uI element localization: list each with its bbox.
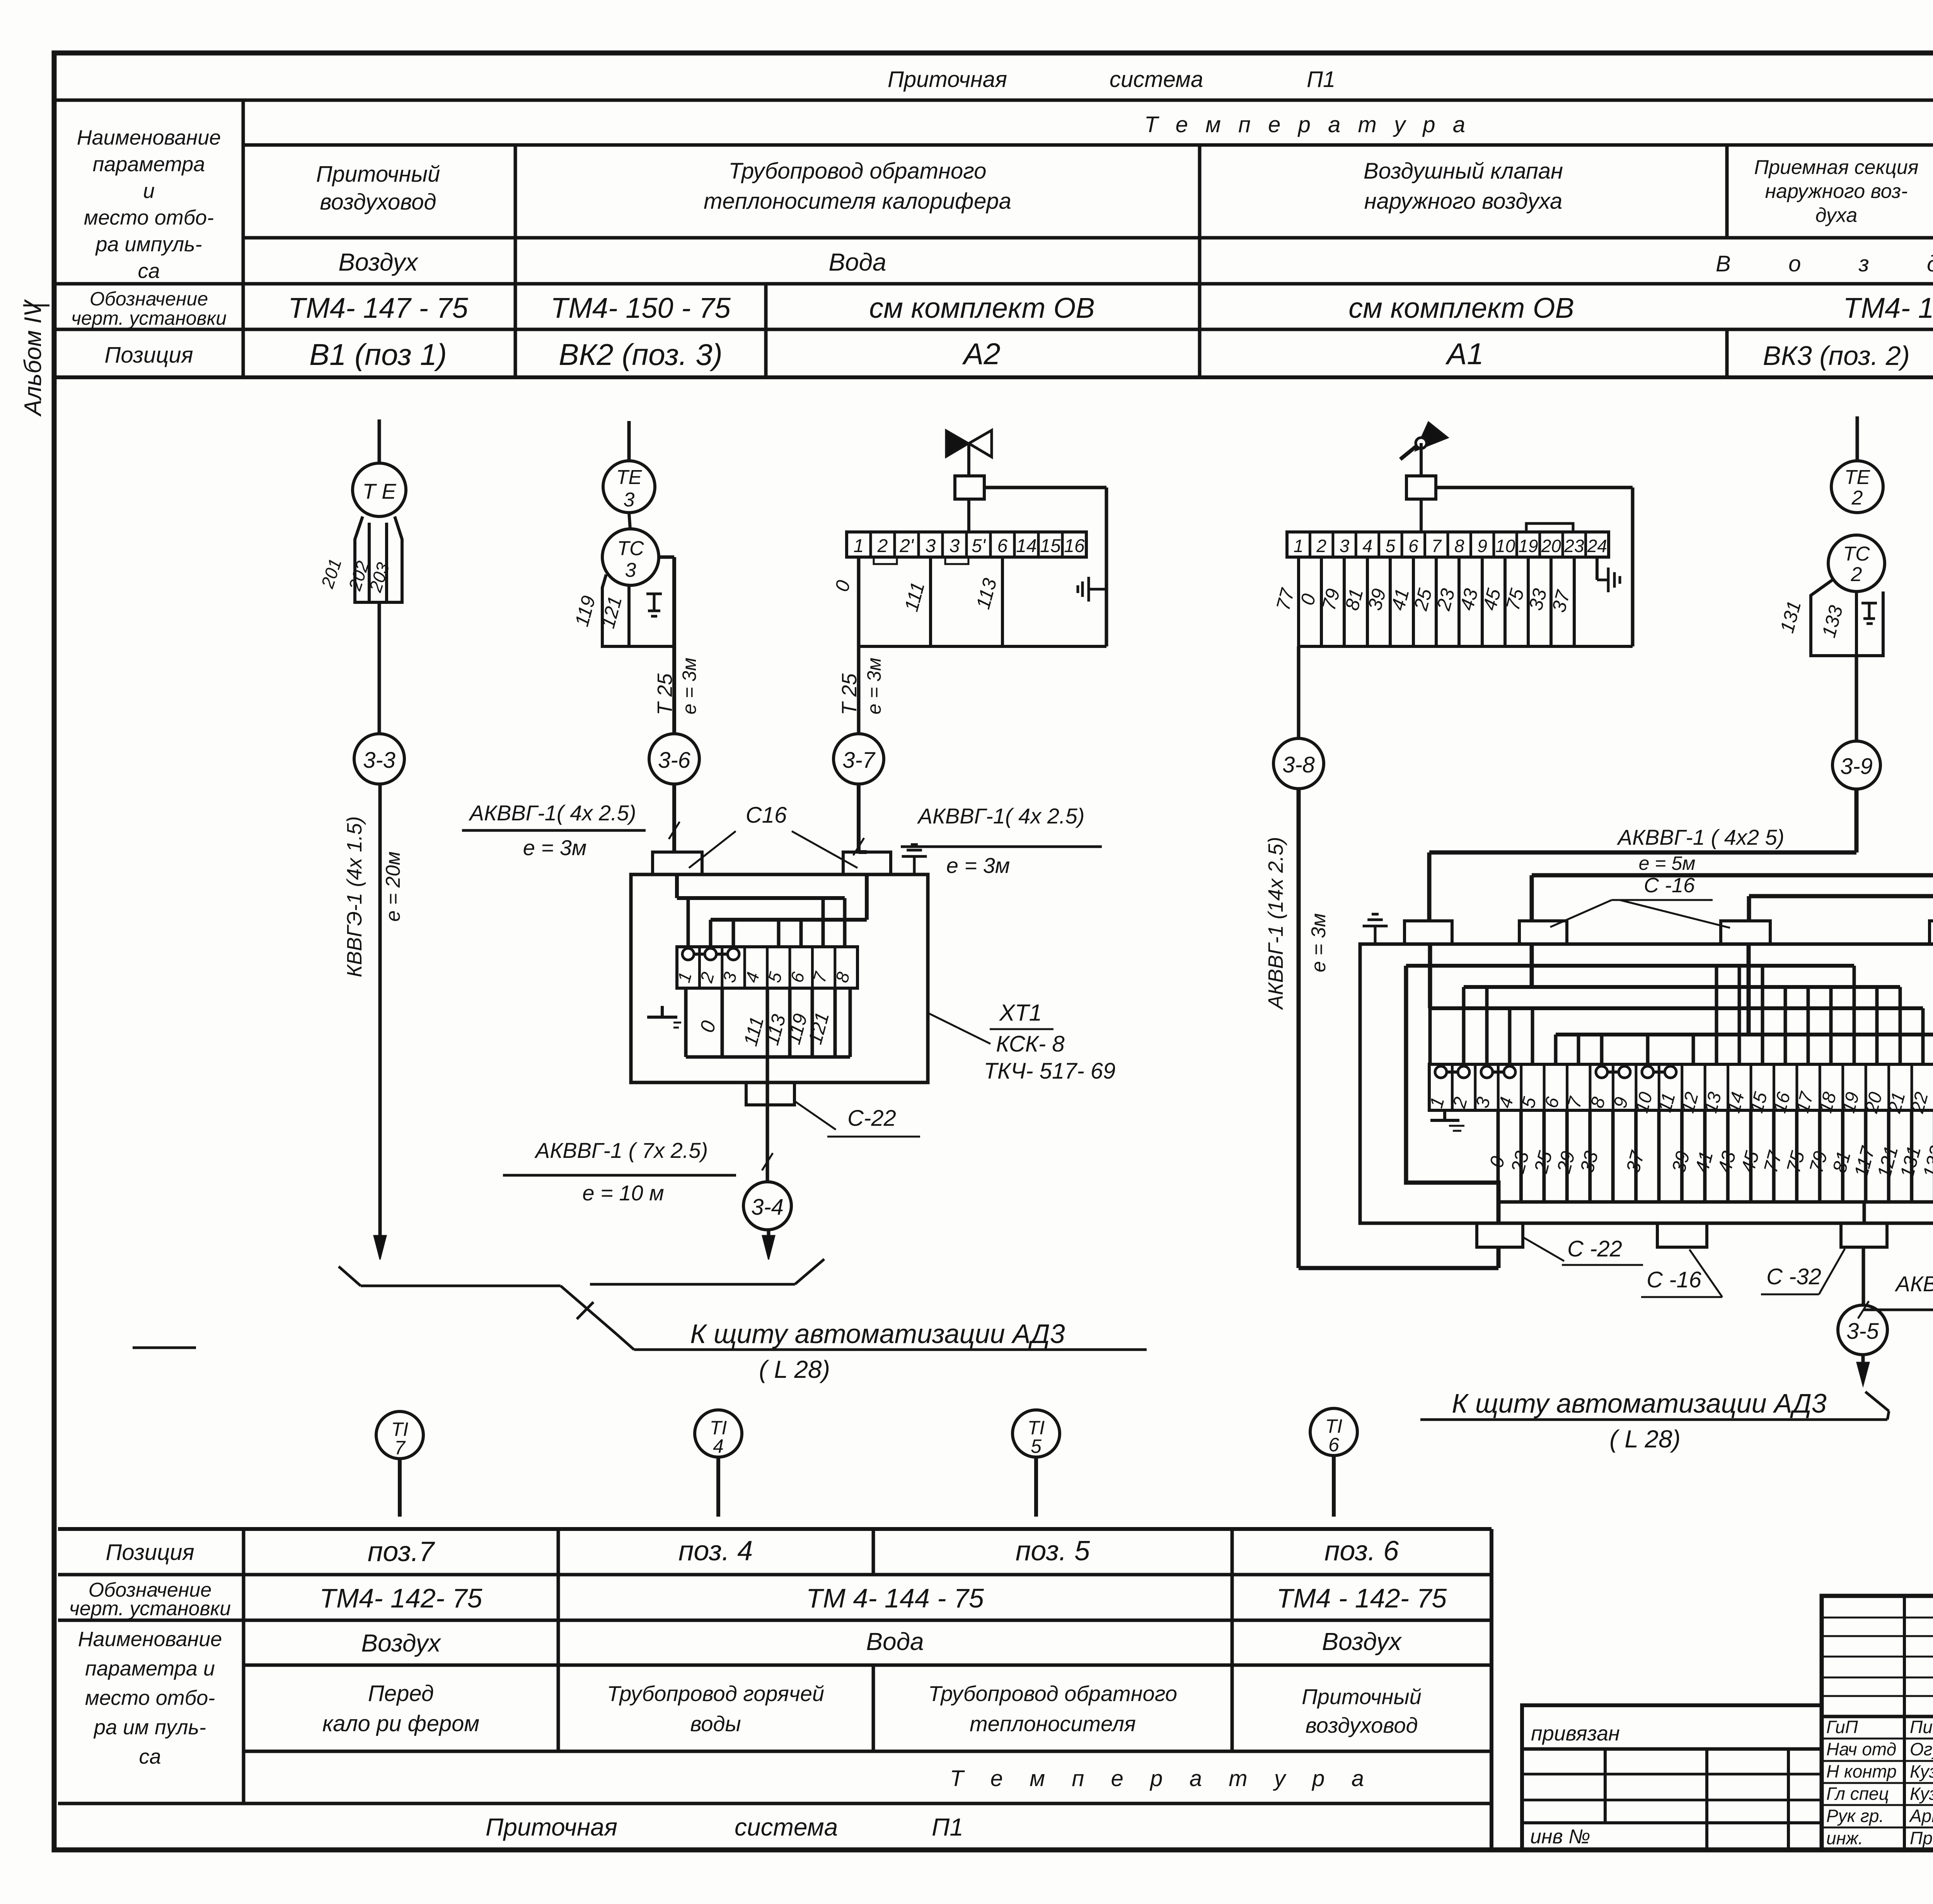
thermometer TI7 bbox=[376, 1411, 423, 1517]
svg-text:АКВВГ-1( 4x 2.5): АКВВГ-1( 4x 2.5) bbox=[917, 804, 1085, 828]
svg-text:19: 19 bbox=[1518, 536, 1538, 556]
svg-text:119: 119 bbox=[571, 593, 600, 629]
svg-text:АКВВГ-1 ( 4x2 5): АКВВГ-1 ( 4x2 5) bbox=[1617, 825, 1785, 849]
svg-text:3: 3 bbox=[625, 559, 636, 581]
svg-text:3: 3 bbox=[949, 536, 960, 556]
node 3-5 bbox=[1838, 1305, 1887, 1355]
svg-text:ТМ4- 142- 75: ТМ4- 142- 75 bbox=[320, 1583, 483, 1613]
svg-text:15: 15 bbox=[1040, 536, 1061, 556]
svg-text:черт. установки: черт. установки bbox=[69, 1597, 231, 1620]
wire actuator to strip A2 bbox=[967, 499, 970, 532]
ground at XT1 top right bbox=[902, 845, 927, 874]
svg-text:Позиция: Позиция bbox=[104, 343, 193, 368]
svg-text:Т е м п е р а т у р а: Т е м п е р а т у р а bbox=[950, 1766, 1364, 1791]
wire A2 to 3-7 (Т 25, e=3м) bbox=[838, 658, 885, 715]
jumper on XT1 terminals 1-2-3 bbox=[682, 948, 739, 960]
ground at XT2 top left bbox=[1363, 914, 1388, 944]
svg-text:КВВГЭ-1 (4x 1.5): КВВГЭ-1 (4x 1.5) bbox=[343, 816, 366, 977]
svg-text:поз. 6: поз. 6 bbox=[1324, 1536, 1399, 1566]
arrow from 3-5 to trunk bbox=[1857, 1355, 1869, 1386]
C-32 label under XT2 bbox=[1761, 1249, 1845, 1294]
svg-text:параметра: параметра bbox=[93, 153, 205, 176]
XT1 outlet wire to C-22 bbox=[766, 1057, 769, 1182]
label XT1 КСК-8 ТКЧ-517-69 with leader bbox=[928, 1000, 1115, 1084]
svg-text:А1: А1 bbox=[1445, 337, 1483, 371]
svg-text:С16: С16 bbox=[746, 803, 787, 828]
signature rows bbox=[1822, 1717, 1933, 1848]
wire 3-9 run bbox=[1856, 416, 1859, 461]
svg-text:кало ри фером: кало ри фером bbox=[322, 1711, 479, 1736]
svg-text:Т Е: Т Е bbox=[362, 479, 396, 503]
svg-text:5': 5' bbox=[972, 536, 986, 556]
svg-text:П1: П1 bbox=[932, 1813, 963, 1841]
svg-text:0: 0 bbox=[696, 1018, 721, 1035]
svg-text:АКВВГ-1 ( 7x 2.5): АКВВГ-1 ( 7x 2.5) bbox=[534, 1138, 708, 1163]
trunk gather bracket to АД3 (left) bbox=[133, 1259, 1147, 1350]
sensor TE2 (first) bbox=[1831, 461, 1883, 513]
node 3-9 bbox=[1832, 741, 1880, 789]
svg-text:место отбо-: место отбо- bbox=[84, 206, 214, 229]
svg-text:е = 3м: е = 3м bbox=[678, 658, 700, 714]
svg-text:см комплект ОВ: см комплект ОВ bbox=[1348, 292, 1574, 324]
svg-text:5: 5 bbox=[1386, 536, 1396, 556]
svg-text:37: 37 bbox=[1622, 1148, 1648, 1175]
svg-text:Арнаутова: Арнаутова bbox=[1909, 1806, 1933, 1826]
svg-text:Наименование: Наименование bbox=[77, 126, 221, 149]
svg-text:3-8: 3-8 bbox=[1282, 752, 1315, 777]
svg-text:0: 0 bbox=[831, 578, 854, 594]
wire 3-11 to XT2 nub3 bbox=[1749, 880, 1933, 921]
terminal box XT2 outline bbox=[1360, 944, 1933, 1223]
wire 3-6 to XT1 bbox=[672, 784, 676, 852]
svg-text:33: 33 bbox=[1576, 1149, 1602, 1175]
svg-text:система: система bbox=[735, 1813, 838, 1841]
jumpers on XT2 terminals 1-2 3-4 8-9 10-11 bbox=[1435, 1066, 1676, 1078]
svg-text:Трубопровод обратного: Трубопровод обратного bbox=[928, 1681, 1177, 1706]
wire actuator to strip A1 bbox=[1420, 499, 1423, 532]
svg-text:43: 43 bbox=[1713, 1149, 1740, 1175]
wire A1 cell1 down to 3-8 bbox=[1297, 646, 1301, 738]
wire C-32 to 3-5 with cable label АКВВГ-1(19x2.5) e=15м bbox=[1858, 1202, 1933, 1339]
svg-text:ТМ4 - 142- 75: ТМ4 - 142- 75 bbox=[1277, 1583, 1447, 1613]
top table texts bbox=[71, 67, 1933, 372]
thermometer TI5 bbox=[1013, 1410, 1060, 1517]
sensor TE (B1) bbox=[353, 463, 406, 516]
svg-text:ТМ4- 147 - 75: ТМ4- 147 - 75 bbox=[288, 292, 468, 324]
damper A1 actuator box bbox=[1406, 476, 1436, 499]
terminal strip XT1 (8 cells) bbox=[673, 947, 857, 988]
svg-text:Воздушный клапан: Воздушный клапан bbox=[1364, 159, 1563, 184]
svg-text:Приемная секция: Приемная секция bbox=[1754, 156, 1918, 179]
svg-text:са: са bbox=[139, 1745, 161, 1768]
svg-text:С-22: С-22 bbox=[847, 1106, 896, 1131]
cable АКВВГ-1(4x2.5) e=3м label at 3-6 bbox=[462, 801, 680, 860]
svg-text:2: 2 bbox=[877, 536, 888, 556]
svg-text:воздуховод: воздуховод bbox=[320, 189, 436, 215]
svg-text:е = 3м: е = 3м bbox=[863, 658, 885, 714]
terminal strip XT2 (cells 1-23 + 32) bbox=[1426, 1062, 1933, 1116]
привязан box bbox=[1522, 1705, 1822, 1850]
terminal strip A1 bbox=[1287, 523, 1609, 557]
svg-text:24: 24 bbox=[1587, 536, 1607, 556]
C-22 label under XT2 bbox=[1523, 1236, 1643, 1265]
svg-text:Обозначение: Обозначение bbox=[90, 288, 208, 310]
svg-text:77: 77 bbox=[1272, 585, 1299, 612]
svg-text:3: 3 bbox=[624, 489, 635, 511]
svg-text:20: 20 bbox=[1541, 536, 1561, 556]
svg-text:АКВВГ-1 (14x 2.5): АКВВГ-1 (14x 2.5) bbox=[1264, 837, 1287, 1010]
ground at A2 terminal 16 bbox=[1078, 577, 1106, 602]
cable АКВВГ-1(4x2.5) e=5м label at 3-9 bbox=[1617, 825, 1785, 874]
svg-text:133: 133 bbox=[1818, 603, 1847, 640]
svg-text:Трубопровод горячей: Трубопровод горячей bbox=[607, 1681, 824, 1706]
connector C16 nub left on XT1 bbox=[653, 852, 702, 874]
svg-text:Кузнецов: Кузнецов bbox=[1910, 1784, 1933, 1804]
svg-text:К щиту автоматизации АД3: К щиту автоматизации АД3 bbox=[690, 1319, 1065, 1349]
svg-text:Приточный: Приточный bbox=[316, 162, 440, 187]
svg-text:8: 8 bbox=[1454, 536, 1464, 556]
svg-text:Воздух: Воздух bbox=[1322, 1628, 1402, 1655]
svg-text:45: 45 bbox=[1737, 1149, 1763, 1175]
svg-text:ТМ4- 147 -75: ТМ4- 147 -75 bbox=[1843, 292, 1933, 324]
svg-text:Воздух: Воздух bbox=[338, 248, 418, 276]
node 3-8 bbox=[1273, 738, 1324, 789]
wire 3-10 to XT2 nub2 bbox=[1532, 789, 1933, 921]
svg-text:наружного воздуха: наружного воздуха bbox=[1364, 189, 1562, 214]
A2 strip drop wires and bus bbox=[831, 557, 1106, 734]
svg-text:С -32: С -32 bbox=[1766, 1264, 1821, 1289]
title block revision rows bbox=[1822, 1596, 1933, 1850]
cable АКВВГ-1(4x2.5) e=3м label at 3-7 bbox=[853, 804, 1102, 878]
svg-text:КСК- 8: КСК- 8 bbox=[996, 1031, 1064, 1057]
svg-text:В о з д у х: В о з д у х bbox=[1716, 251, 1933, 276]
svg-text:131: 131 bbox=[1776, 598, 1805, 635]
svg-text:( L 28): ( L 28) bbox=[1609, 1425, 1681, 1453]
svg-text:Проимкина: Проимкина bbox=[1910, 1828, 1933, 1848]
bottom table grid bbox=[58, 1529, 1492, 1850]
wire TC3 to 3-6 (Т 25, e=3м) bbox=[653, 557, 700, 734]
C16 label with leaders (XT1) bbox=[689, 803, 857, 868]
svg-text:121: 121 bbox=[804, 1010, 834, 1047]
wire 3-9 to XT2 nub1 bbox=[1429, 789, 1856, 921]
svg-text:Вода: Вода bbox=[828, 248, 886, 276]
node 3-4 bbox=[743, 1182, 791, 1230]
svg-text:С -16: С -16 bbox=[1647, 1267, 1702, 1292]
svg-text:С -16: С -16 bbox=[1644, 874, 1695, 897]
svg-text:са: са bbox=[138, 259, 160, 283]
connector C-22 nub under XT1 bbox=[746, 1082, 794, 1105]
svg-text:Т 25: Т 25 bbox=[653, 673, 677, 715]
svg-text:ГиП: ГиП bbox=[1826, 1717, 1858, 1737]
thermometer TI6 bbox=[1310, 1408, 1357, 1517]
svg-text:6: 6 bbox=[1408, 536, 1418, 556]
svg-text:А2: А2 bbox=[962, 337, 1000, 371]
wire actuator to terminal 16 bbox=[984, 488, 1106, 646]
svg-text:Наименование: Наименование bbox=[78, 1628, 222, 1651]
terminal box under TC2 (131/133) bbox=[1776, 580, 1883, 656]
svg-text:2: 2 bbox=[1851, 563, 1862, 586]
cable АКВВГ-1(14x2.5) e=3м rotated label bbox=[1264, 837, 1330, 1010]
trunk bracket to АД3 (right) bbox=[1420, 1392, 1889, 1420]
svg-text:ВК3 (поз. 2): ВК3 (поз. 2) bbox=[1763, 341, 1910, 371]
svg-text:привязан: привязан bbox=[1531, 1722, 1620, 1745]
svg-text:2': 2' bbox=[899, 536, 914, 556]
sensor TC2 (first) bbox=[1828, 535, 1885, 591]
svg-text:АКВВГ- 1( 19x 2. 5): АКВВГ- 1( 19x 2. 5) bbox=[1895, 1272, 1933, 1296]
svg-text:Приточная: Приточная bbox=[486, 1813, 617, 1841]
svg-text:Приточный: Приточный bbox=[1302, 1684, 1422, 1709]
svg-text:ТКЧ- 517- 69: ТКЧ- 517- 69 bbox=[984, 1059, 1116, 1084]
svg-text:инв №: инв № bbox=[1530, 1826, 1590, 1848]
ground inside XT1 bbox=[647, 1006, 681, 1028]
svg-text:3-5: 3-5 bbox=[1846, 1319, 1879, 1344]
svg-text:5: 5 bbox=[1031, 1435, 1042, 1457]
svg-text:Пивторак: Пивторак bbox=[1910, 1717, 1933, 1737]
valve A2 (клапан) symbol bbox=[946, 430, 992, 476]
svg-text:9: 9 bbox=[1477, 536, 1487, 556]
svg-text:наружного воз-: наружного воз- bbox=[1765, 180, 1908, 203]
svg-text:25: 25 bbox=[1530, 1149, 1556, 1175]
svg-text:ТЕ: ТЕ bbox=[616, 466, 643, 489]
ground at A1 strip bbox=[1597, 557, 1620, 592]
svg-text:111: 111 bbox=[900, 580, 929, 614]
svg-text:е = 20м: е = 20м bbox=[382, 851, 404, 922]
svg-text:1: 1 bbox=[1294, 536, 1304, 556]
node 3-6 bbox=[649, 734, 699, 784]
connector C16 nub right on XT1 bbox=[843, 852, 891, 874]
svg-text:воды: воды bbox=[690, 1711, 741, 1736]
svg-text:77: 77 bbox=[1759, 1148, 1786, 1175]
svg-text:23: 23 bbox=[1507, 1149, 1533, 1175]
svg-text:место отбо-: место отбо- bbox=[85, 1686, 215, 1710]
svg-text:Т 25: Т 25 bbox=[838, 673, 861, 715]
valve A2 actuator box bbox=[955, 476, 984, 499]
svg-text:и: и bbox=[143, 179, 155, 203]
svg-text:С -22: С -22 bbox=[1567, 1236, 1622, 1261]
svg-text:е = 5м: е = 5м bbox=[1639, 852, 1696, 874]
C-16 label above XT2 nubs 2-3 bbox=[1550, 874, 1730, 928]
terminal strip A2 bbox=[847, 532, 1086, 557]
svg-text:черт. установки: черт. установки bbox=[71, 307, 227, 329]
svg-text:4: 4 bbox=[1362, 536, 1372, 556]
label К щиту автоматизации АД3 (left) bbox=[690, 1319, 1065, 1383]
svg-text:см комплект ОВ: см комплект ОВ bbox=[869, 292, 1095, 324]
svg-text:3-9: 3-9 bbox=[1840, 754, 1873, 779]
svg-text:4: 4 bbox=[713, 1435, 724, 1457]
svg-text:1: 1 bbox=[854, 536, 864, 556]
top table grid bbox=[54, 100, 1933, 377]
svg-text:поз. 4: поз. 4 bbox=[678, 1536, 753, 1566]
svg-text:параметра и: параметра и bbox=[85, 1657, 215, 1680]
XT2 internal bus wiring bbox=[1406, 944, 1933, 1223]
svg-text:система: система bbox=[1110, 67, 1203, 92]
svg-text:3-7: 3-7 bbox=[842, 748, 876, 773]
svg-text:Рук гр.: Рук гр. bbox=[1826, 1806, 1884, 1826]
svg-text:3-4: 3-4 bbox=[751, 1195, 784, 1220]
svg-text:16: 16 bbox=[1064, 536, 1085, 556]
sensor head B1 (strips 201/202/203) bbox=[317, 516, 402, 602]
C-22 label with leader (XT1) bbox=[793, 1100, 920, 1137]
svg-text:е = 10 м: е = 10 м bbox=[582, 1181, 664, 1205]
svg-text:ХТ1: ХТ1 bbox=[999, 1000, 1042, 1026]
svg-text:41: 41 bbox=[1691, 1149, 1717, 1175]
terminal box under TC3 (119/121) bbox=[571, 574, 674, 646]
svg-text:Перед: Перед bbox=[368, 1681, 434, 1706]
svg-text:7: 7 bbox=[1431, 536, 1442, 556]
wire TC2 to 3-9 bbox=[1855, 591, 1858, 740]
svg-text:( L 28): ( L 28) bbox=[759, 1355, 830, 1383]
svg-text:75: 75 bbox=[1782, 1149, 1809, 1175]
svg-text:ра им пуль-: ра им пуль- bbox=[93, 1716, 206, 1739]
wire 3-7 to XT1 bbox=[859, 784, 867, 852]
svg-text:2: 2 bbox=[1851, 487, 1863, 509]
XT2 lower wire channels with numbers bbox=[1485, 1110, 1933, 1202]
svg-text:201: 201 bbox=[317, 556, 345, 591]
svg-text:6: 6 bbox=[1328, 1434, 1339, 1456]
svg-text:Гл спец: Гл спец bbox=[1826, 1784, 1889, 1804]
XT1 internal wiring bbox=[677, 874, 867, 947]
sensor TE3 bbox=[603, 461, 655, 529]
svg-text:10: 10 bbox=[1495, 536, 1515, 556]
svg-text:теплоносителя калорифера: теплоносителя калорифера bbox=[704, 189, 1011, 214]
svg-text:Т е м п е р а т у р а: Т е м п е р а т у р а bbox=[1144, 112, 1465, 137]
svg-text:духа: духа bbox=[1815, 204, 1858, 227]
svg-text:Альбом IV: Альбом IV bbox=[20, 299, 46, 417]
svg-text:теплоносителя: теплоносителя bbox=[970, 1711, 1136, 1736]
svg-text:е = 3м: е = 3м bbox=[1307, 913, 1330, 972]
wire from B1 to 3-3 bbox=[378, 602, 381, 734]
wire A1 actuator to terminal 24 bbox=[1436, 488, 1633, 646]
arrow from 3-4 to trunk bbox=[762, 1230, 775, 1260]
svg-text:3-6: 3-6 bbox=[658, 748, 691, 773]
svg-text:Воздух: Воздух bbox=[361, 1629, 441, 1657]
svg-text:113: 113 bbox=[972, 576, 1001, 612]
svg-text:ра импуль-: ра импуль- bbox=[95, 233, 202, 256]
svg-text:инж.: инж. bbox=[1826, 1828, 1863, 1848]
bottom table texts bbox=[69, 1536, 1447, 1841]
svg-text:3: 3 bbox=[1340, 536, 1350, 556]
wire 3-3 run (приточный воздуховод sensor) bbox=[378, 419, 381, 463]
album label (Альбом IV) bbox=[20, 299, 49, 417]
svg-text:ТМ 4- 144 - 75: ТМ 4- 144 - 75 bbox=[806, 1583, 984, 1613]
title block outline bbox=[1822, 1596, 1933, 1850]
damper A1 symbol bbox=[1400, 422, 1448, 476]
svg-text:3-3: 3-3 bbox=[363, 748, 395, 773]
svg-text:39: 39 bbox=[1667, 1149, 1694, 1175]
svg-text:7: 7 bbox=[394, 1437, 406, 1459]
svg-text:ТЕ: ТЕ bbox=[1844, 466, 1871, 489]
svg-text:Кузнецов: Кузнецов bbox=[1910, 1761, 1933, 1781]
svg-text:2: 2 bbox=[1316, 536, 1326, 556]
svg-text:ТС: ТС bbox=[1843, 543, 1870, 565]
node 3-7 bbox=[834, 734, 884, 784]
terminal box XT1 outline bbox=[631, 874, 928, 1082]
svg-text:23: 23 bbox=[1564, 536, 1584, 556]
svg-text:6: 6 bbox=[997, 536, 1008, 556]
svg-text:ТМ4- 150 - 75: ТМ4- 150 - 75 bbox=[551, 292, 731, 324]
svg-text:Позиция: Позиция bbox=[106, 1540, 194, 1565]
svg-text:ВК2 (поз. 3): ВК2 (поз. 3) bbox=[559, 338, 722, 372]
svg-text:В1 (поз 1): В1 (поз 1) bbox=[309, 338, 447, 372]
ground in TC3 box bbox=[646, 594, 662, 616]
node 3-3 bbox=[354, 734, 404, 784]
svg-text:ТС: ТС bbox=[617, 537, 644, 560]
C-16 label under XT2 bbox=[1641, 1249, 1722, 1297]
ground inside XT2 left bbox=[1430, 1109, 1464, 1131]
cable АКВВГ-1(7x2.5) e=10м to 3-4 bbox=[503, 1138, 773, 1205]
svg-text:АКВВГ-1( 4x 2.5): АКВВГ-1( 4x 2.5) bbox=[469, 801, 636, 825]
svg-text:П1: П1 bbox=[1307, 67, 1335, 92]
svg-text:е = 3м: е = 3м bbox=[523, 835, 587, 860]
XT2 bottom connector nubs bbox=[1477, 1223, 1887, 1247]
svg-text:29: 29 bbox=[1553, 1149, 1579, 1175]
svg-text:поз.7: поз.7 bbox=[368, 1536, 435, 1567]
wire 3-8 trunk to XT2 C-22 bbox=[1299, 789, 1498, 1268]
wire 3-6 run (обратный теплоноситель sensor) bbox=[627, 421, 631, 461]
svg-text:Н контр: Н контр bbox=[1826, 1761, 1897, 1781]
svg-text:79: 79 bbox=[1805, 1149, 1831, 1175]
svg-text:е = 3м: е = 3м bbox=[946, 853, 1010, 878]
svg-text:поз. 5: поз. 5 bbox=[1016, 1536, 1090, 1566]
svg-text:3: 3 bbox=[926, 536, 936, 556]
XT1 lower wire channels bbox=[686, 988, 850, 1057]
svg-text:Огурцов: Огурцов bbox=[1910, 1739, 1933, 1759]
XT2 top connector nubs C-16 bbox=[1405, 921, 1933, 944]
svg-text:14: 14 bbox=[1016, 536, 1036, 556]
svg-text:Трубопровод обратного: Трубопровод обратного bbox=[729, 159, 987, 184]
svg-text:К щиту автоматизации АД3: К щиту автоматизации АД3 bbox=[1452, 1388, 1827, 1418]
label К щиту автоматизации АД3 (right) bbox=[1452, 1388, 1827, 1453]
svg-text:Приточная: Приточная bbox=[888, 67, 1007, 92]
svg-text:воздуховод: воздуховод bbox=[1306, 1713, 1418, 1737]
thermometer TI4 bbox=[695, 1410, 742, 1517]
sensor TC3 bbox=[602, 529, 659, 585]
A1 strip drop wires and bus bbox=[1272, 557, 1633, 646]
cable КВВГЭ-1(4x1.5) e=20m down to panel bbox=[343, 784, 404, 1260]
svg-text:Вода: Вода bbox=[866, 1628, 924, 1655]
svg-text:Нач отд: Нач отд bbox=[1826, 1739, 1896, 1759]
